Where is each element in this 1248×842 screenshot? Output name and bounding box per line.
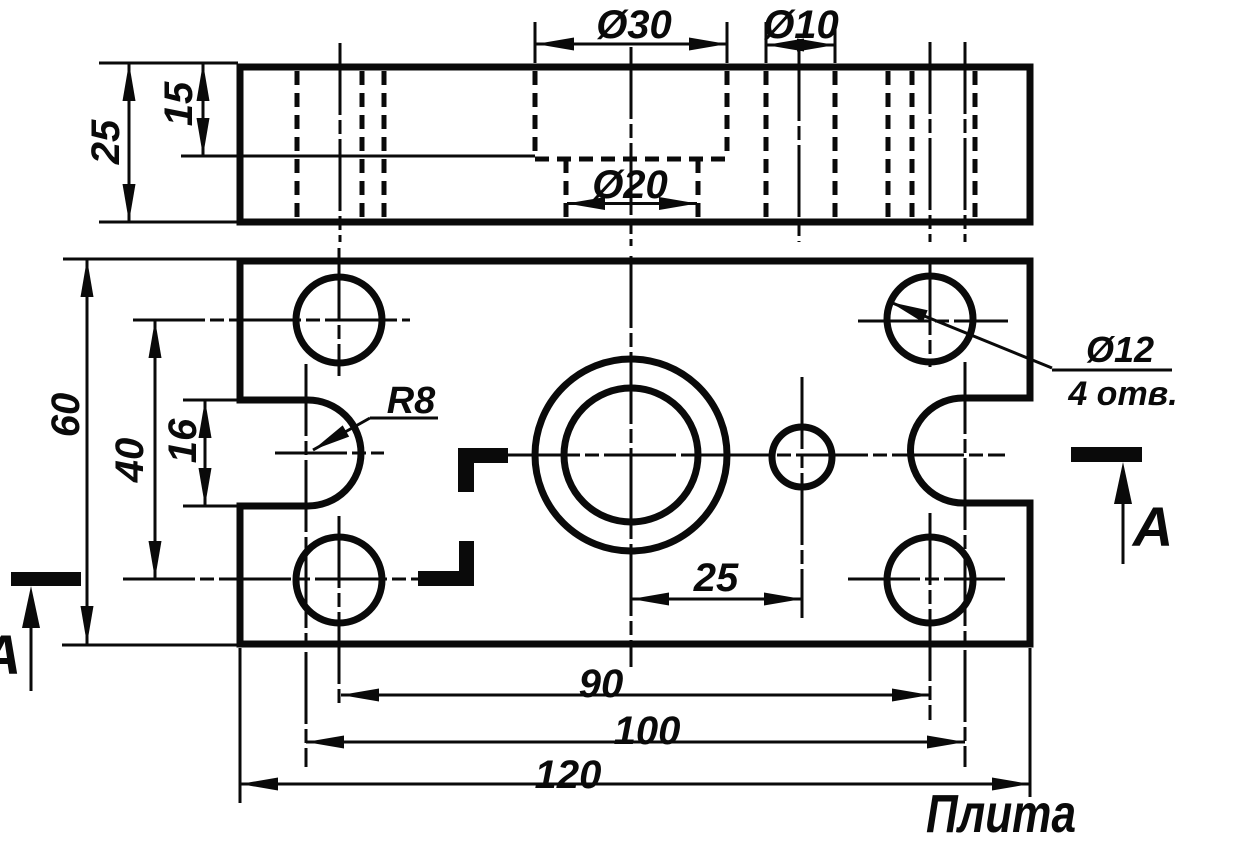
svg-text:25: 25 <box>693 556 739 600</box>
svg-text:Ø10: Ø10 <box>763 3 839 47</box>
svg-text:16: 16 <box>161 418 205 463</box>
svg-text:Ø20: Ø20 <box>592 163 668 207</box>
svg-text:R8: R8 <box>387 380 436 422</box>
svg-text:A: A <box>1131 495 1173 558</box>
svg-text:40: 40 <box>108 438 152 484</box>
svg-text:120: 120 <box>535 753 602 797</box>
svg-text:90: 90 <box>579 662 624 706</box>
svg-text:4 отв.: 4 отв. <box>1067 375 1177 413</box>
svg-text:Ø30: Ø30 <box>596 3 672 47</box>
svg-text:15: 15 <box>157 81 201 126</box>
svg-text:60: 60 <box>44 393 88 438</box>
svg-text:Ø12: Ø12 <box>1086 329 1154 370</box>
svg-text:25: 25 <box>84 119 128 165</box>
svg-text:100: 100 <box>614 709 681 753</box>
svg-text:A: A <box>0 623 21 686</box>
svg-text:Плита: Плита <box>926 784 1076 842</box>
